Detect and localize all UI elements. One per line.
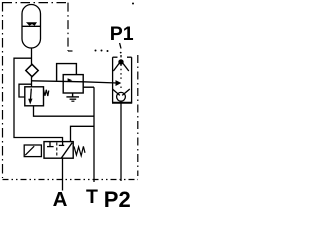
svg-text:P2: P2 bbox=[104, 187, 131, 208]
svg-text:T: T bbox=[86, 186, 98, 208]
svg-text:P1: P1 bbox=[110, 23, 134, 45]
svg-text:A: A bbox=[53, 188, 68, 208]
